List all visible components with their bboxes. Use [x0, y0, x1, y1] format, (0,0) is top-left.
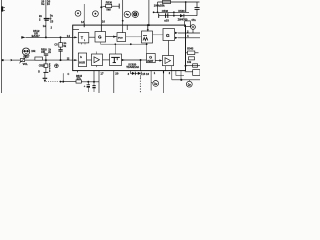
stub x63 up [62, 73, 64, 81]
capacitor C516 [92, 82, 95, 92]
svg-text:R530: R530 [106, 0, 113, 4]
block B3 pulse shaper [110, 54, 122, 66]
block B1 HOR [78, 53, 86, 67]
pin 16 wire into G1 [100, 25, 102, 32]
wire x149 vertical [148, 0, 150, 25]
pin tick x77 [76, 71, 78, 73]
resistor R519 on branch [59, 43, 63, 48]
wire B3 to node with arrow [122, 59, 141, 61]
top rail y2 [158, 1, 200, 3]
ground symbol [43, 72, 49, 82]
connector J1 top-left [1, 6, 5, 11]
pin tick x127 [126, 25, 128, 30]
svg-text:R543: R543 [187, 48, 194, 51]
stub x174 [173, 12, 175, 15]
node R530 left [100, 6, 102, 8]
motor plug E [151, 81, 159, 87]
volume control oval [22, 48, 36, 66]
svg-text:57k: 57k [77, 78, 82, 81]
block T (flip-flop) [78, 33, 89, 45]
dashed line bottom middle [139, 78, 141, 93]
wire input to pot [13, 59, 20, 61]
diode D530 [178, 9, 188, 22]
resistor R530 [101, 0, 119, 11]
node bus x146.6 [146, 43, 148, 45]
svg-text:C51: C51 [41, 51, 46, 54]
T-bar end of wire3 [158, 14, 160, 18]
svg-text:u33: u33 [164, 18, 169, 22]
node x149 at IC edge [148, 24, 150, 26]
wire to R514 [63, 81, 76, 83]
internal stub top-left [73, 29, 79, 31]
svg-text:VOL: VOL [23, 63, 29, 66]
wire x122.7 vertical [122, 0, 124, 25]
pin tick x163.5 [163, 71, 165, 74]
vertical x185.7 [185, 2, 187, 12]
wire pin2 [178, 32, 200, 34]
wire pin4 [178, 37, 200, 39]
wire B y71.8 [185, 71, 193, 73]
node x46 lower [45, 59, 47, 61]
svg-text:R517: R517 [23, 56, 30, 59]
block amp triangle right [163, 56, 174, 66]
svg-text:TDA8214A: TDA8214A [126, 65, 139, 69]
wire pot to R520 [25, 59, 35, 61]
wire PWM to G2 [153, 34, 163, 36]
node on x122.7 wire [122, 20, 124, 22]
pin wire down x163.5 [163, 71, 165, 93]
node wire A at IC edge [185, 65, 187, 67]
wire R515 to pin 17 [81, 81, 99, 83]
arrow into B1 [74, 59, 77, 61]
svg-text:C5: C5 [50, 20, 54, 24]
resistor R543 [186, 48, 199, 55]
node pin PWM at edge [147, 24, 149, 26]
internal bus [97, 42, 147, 54]
node bus x130.8 [130, 43, 132, 45]
svg-text:13: 13 [81, 20, 84, 24]
block PWM [142, 31, 153, 43]
block G2 [163, 29, 174, 41]
wire A y65.7 [186, 65, 201, 67]
wire vertical net x46 [45, 0, 47, 37]
test point TP1 [75, 10, 81, 16]
svg-text:G: G [98, 35, 102, 40]
relay box bottom right [193, 70, 200, 76]
resistor R532 on rail [163, 0, 171, 3]
node x61 on volume wire [60, 59, 62, 61]
pin wire into VCO [122, 25, 124, 33]
svg-text:G: G [149, 55, 152, 59]
pin 1 wire down x151 [150, 71, 152, 91]
pin 20 wire down [113, 71, 115, 93]
dashed wire bottom-left [46, 81, 60, 83]
vertical x157.5 [157, 2, 159, 12]
block VCO [117, 33, 126, 42]
svg-text:17: 17 [100, 72, 104, 76]
svg-text:VERT: VERT [147, 60, 154, 63]
arrow into amp box [155, 60, 160, 62]
input arrow left [2, 59, 13, 61]
svg-text:0u: 0u [41, 2, 44, 6]
boundary wire x84 to pin 13 [83, 4, 85, 25]
pin wire step x175.9 [176, 71, 184, 76]
svg-text:10k: 10k [187, 61, 192, 64]
vertical G2 to amp [168, 41, 170, 56]
wire node to x61 [46, 59, 73, 61]
node x140.5 [140, 59, 142, 61]
node bus x115.3 [115, 43, 117, 45]
svg-text:vco: vco [118, 36, 123, 40]
arrow into PWM [147, 29, 149, 31]
block B2 amp triangle [92, 54, 103, 67]
wire node down to pin [140, 60, 142, 71]
svg-text:D530: D530 [178, 9, 185, 13]
pin 17 wire down [98, 71, 100, 93]
wire VCO to PWM [126, 36, 142, 38]
page border left [0, 0, 2, 93]
svg-text:16: 16 [102, 20, 105, 24]
wire node to pin 14 [61, 36, 73, 38]
svg-text:C520: C520 [39, 63, 46, 67]
bottom diode cluster [128, 71, 150, 78]
pin wire into PWM [147, 25, 149, 31]
pin 13 tick [83, 23, 85, 27]
svg-text:b: b [80, 55, 82, 59]
wire G1 to VCO with arrow [106, 36, 117, 38]
IC U1 outline SC620 TDA8214A [73, 25, 186, 71]
connector circle B [132, 11, 138, 17]
pin wire down x171.8 [171, 71, 173, 80]
wire T to G [89, 36, 95, 38]
resistor R520 [35, 57, 43, 60]
test point TP2 [93, 11, 99, 17]
node x63 [62, 81, 64, 83]
capacitor C518 plates [58, 49, 62, 51]
pin wire x94 down [93, 71, 95, 83]
wire branch x61 down [60, 37, 62, 42]
connector circle A [124, 11, 130, 17]
wire node to G3 [141, 59, 147, 61]
wire x101 vertical [100, 0, 102, 32]
svg-text:G: G [166, 33, 170, 39]
amp box pins down [165, 66, 167, 71]
pin wire down x181 [180, 71, 182, 80]
wire3 y15.7 [159, 15, 197, 17]
block G1 [95, 32, 106, 43]
node x185.7 on rail1 [185, 1, 187, 3]
node rail2 left end [153, 11, 155, 13]
svg-text:15 16: 15 16 [142, 72, 149, 76]
G2 output arrows [175, 32, 178, 34]
node at x46 [45, 36, 47, 38]
svg-text:C: C [68, 73, 70, 76]
rail2 y12.3 [153, 11, 189, 13]
capacitor C517 up [44, 54, 48, 60]
resistor R544 [189, 57, 195, 60]
wire D512 to node [26, 36, 61, 38]
node at x60.5 [60, 36, 62, 38]
wire y79.8 [172, 79, 200, 81]
node x157.5 on rail2 [157, 11, 159, 13]
node x94 [93, 81, 95, 83]
block G3 VERT [147, 54, 156, 63]
svg-text:47n: 47n [191, 18, 196, 22]
diode D512 [22, 29, 41, 39]
arrow into T [74, 36, 77, 38]
wire B2 to B3 [103, 59, 110, 61]
potentiometer R517 [19, 56, 26, 63]
capacitor C532 [162, 9, 170, 23]
capacitor C520 down to ground [39, 60, 51, 73]
svg-text:20: 20 [115, 72, 119, 76]
resistor R515 [76, 80, 81, 83]
node x181 on wire y79.8 [180, 79, 182, 81]
arrow on dashed wire [60, 81, 63, 83]
screw symbol [55, 64, 59, 68]
capacitor box on wire A [193, 64, 198, 67]
capacitor C504 on x46 [39, 14, 54, 24]
wire R520 to node [42, 59, 46, 61]
svg-text:14: 14 [67, 34, 71, 38]
wire R519 to C518 [60, 47, 62, 50]
svg-text:HOR: HOR [79, 61, 85, 65]
node x88 [87, 81, 89, 83]
motor plug F [186, 80, 192, 87]
svg-text:10k: 10k [31, 50, 36, 53]
plug circle top right [191, 25, 196, 33]
svg-text:D: D [38, 71, 40, 74]
capacitor C533 47n [191, 2, 199, 22]
capacitor C515 [84, 82, 90, 92]
svg-text:5k6: 5k6 [106, 8, 111, 12]
wire B1 to B2 [87, 59, 92, 61]
svg-text:C532: C532 [162, 9, 169, 13]
resistor R536 vertical [185, 21, 191, 27]
svg-text:100k/25k: 100k/25k [154, 3, 165, 7]
